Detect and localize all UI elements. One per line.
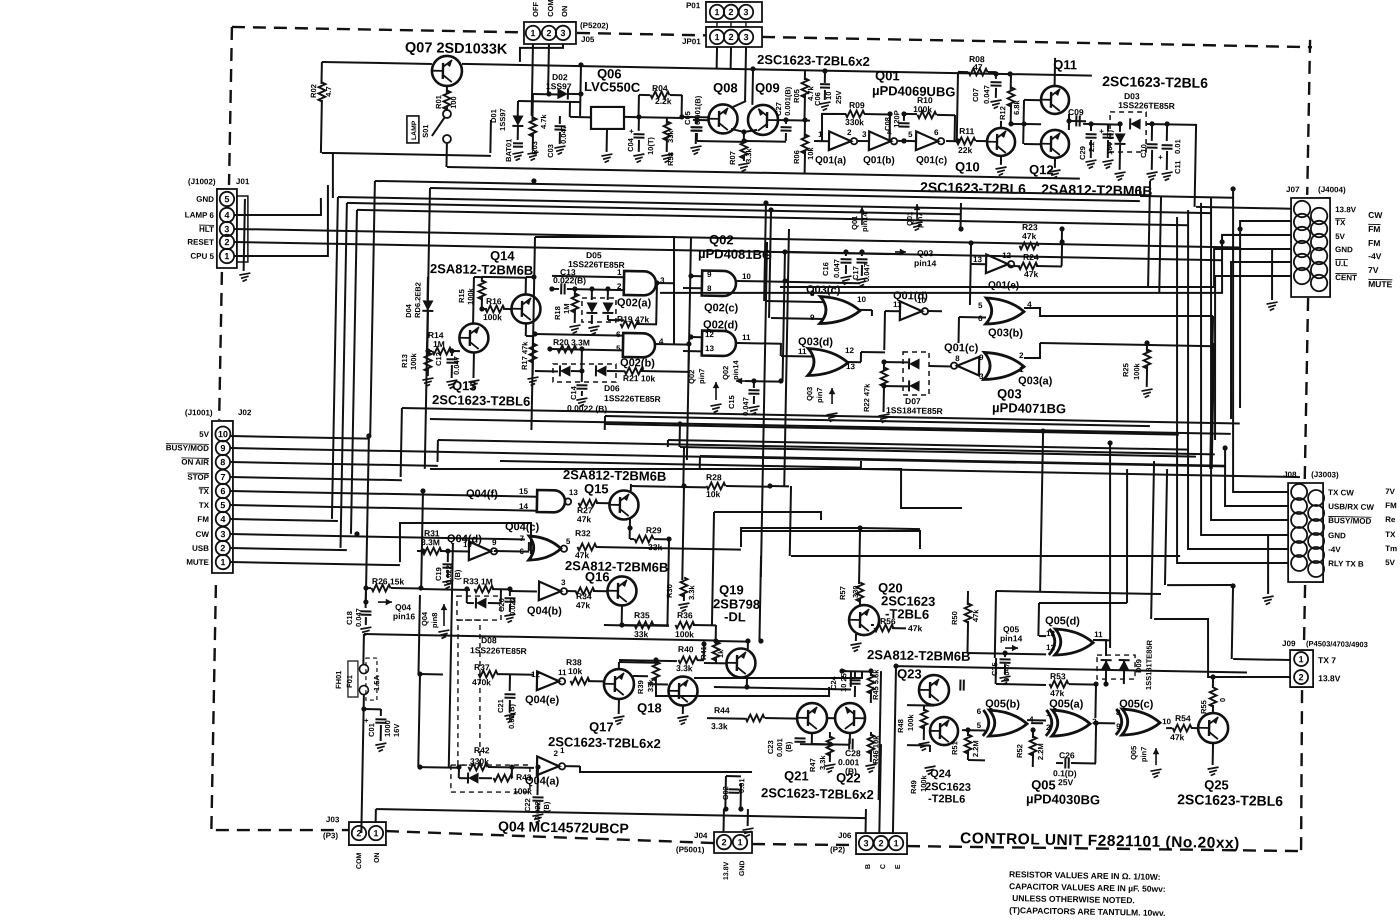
svg-text:C21: C21 bbox=[496, 699, 505, 713]
svg-text:COM: COM bbox=[546, 0, 555, 17]
svg-text:(P5001): (P5001) bbox=[676, 845, 705, 855]
svg-text:C04: C04 bbox=[626, 137, 635, 152]
inverter Q01(e) bbox=[986, 254, 1008, 273]
svg-text:Q05: Q05 bbox=[1129, 746, 1138, 760]
inverter Q04(d) bbox=[469, 541, 491, 560]
svg-text:1: 1 bbox=[1046, 709, 1051, 718]
svg-text:LAMP: LAMP bbox=[411, 120, 418, 140]
bus right verticals bbox=[1148, 181, 1150, 287]
svg-text:R51: R51 bbox=[950, 741, 959, 755]
svg-text:GND: GND bbox=[739, 860, 746, 876]
connector P01 bbox=[706, 1, 763, 23]
svg-text:R53: R53 bbox=[1050, 671, 1066, 681]
svg-text:-4V: -4V bbox=[1328, 545, 1341, 554]
resistor R33 bbox=[421, 588, 470, 591]
svg-text:16V: 16V bbox=[392, 724, 401, 738]
svg-text:6: 6 bbox=[978, 314, 983, 323]
resistor R11 22k bbox=[956, 137, 975, 144]
svg-text:0.022: 0.022 bbox=[508, 597, 517, 616]
svg-text:Q11: Q11 bbox=[1053, 57, 1077, 72]
svg-text:R07: R07 bbox=[728, 151, 737, 165]
svg-text:pin8: pin8 bbox=[430, 613, 439, 629]
svg-text:2SC1623-T2BL6x2: 2SC1623-T2BL6x2 bbox=[761, 785, 874, 802]
resistor R38 bbox=[570, 677, 589, 684]
svg-text:C25: C25 bbox=[990, 662, 999, 676]
diode box D05 bbox=[582, 297, 617, 322]
svg-text:Q04 MC14572UBCP: Q04 MC14572UBCP bbox=[498, 818, 629, 836]
svg-text:2SC1623-T2BL6x2: 2SC1623-T2BL6x2 bbox=[757, 52, 870, 69]
svg-text:100k: 100k bbox=[919, 774, 928, 792]
svg-text:11: 11 bbox=[1094, 630, 1103, 639]
gate Q02(d) bbox=[702, 331, 736, 357]
svg-text:Q08: Q08 bbox=[713, 80, 738, 95]
svg-text:33k: 33k bbox=[666, 129, 675, 143]
svg-text:R28: R28 bbox=[706, 472, 722, 482]
svg-text:C14: C14 bbox=[569, 385, 578, 400]
transistor Q12 bbox=[1041, 130, 1070, 159]
svg-text:R37: R37 bbox=[474, 662, 490, 672]
svg-text:C: C bbox=[880, 864, 887, 869]
resistor R58 bbox=[666, 117, 668, 124]
svg-text:C27: C27 bbox=[774, 102, 783, 116]
svg-text:1SS226TE85R: 1SS226TE85R bbox=[1118, 100, 1175, 111]
svg-text:47k: 47k bbox=[576, 600, 591, 610]
svg-text:C26: C26 bbox=[1059, 750, 1075, 760]
svg-text:33k: 33k bbox=[634, 629, 649, 639]
resistor R32 bbox=[577, 543, 596, 550]
svg-text:Q03(c): Q03(c) bbox=[806, 284, 841, 297]
svg-text:R49: R49 bbox=[909, 780, 918, 794]
inverter Q01(a) bbox=[829, 131, 851, 150]
svg-text:pin7: pin7 bbox=[697, 368, 706, 384]
svg-text:2: 2 bbox=[728, 32, 733, 42]
svg-text:4: 4 bbox=[224, 210, 229, 220]
connector J05 bbox=[524, 21, 577, 45]
transistor Q19 bbox=[726, 648, 756, 678]
svg-text:C22: C22 bbox=[523, 798, 532, 812]
svg-text:3: 3 bbox=[863, 838, 868, 848]
svg-text:(J4004): (J4004) bbox=[1318, 185, 1346, 195]
svg-text:2SA812-T2BM6B: 2SA812-T2BM6B bbox=[1041, 181, 1153, 199]
svg-text:U.L: U.L bbox=[1335, 259, 1348, 268]
resistor R01 bbox=[446, 86, 448, 93]
svg-text:2: 2 bbox=[721, 837, 726, 847]
capacitor C13 bbox=[552, 288, 559, 290]
svg-text:9: 9 bbox=[707, 270, 712, 279]
svg-text:(P5202): (P5202) bbox=[580, 21, 609, 31]
svg-text:8: 8 bbox=[955, 354, 960, 363]
svg-text:D08: D08 bbox=[481, 635, 497, 645]
capacitor C11 bbox=[1166, 124, 1168, 141]
svg-text:J08: J08 bbox=[1283, 470, 1297, 479]
bus horiz A bbox=[375, 181, 1150, 195]
resistor R06 bbox=[804, 120, 806, 138]
svg-text:S01: S01 bbox=[421, 124, 430, 138]
svg-text:0.047: 0.047 bbox=[741, 397, 750, 416]
svg-text:Q01(d): Q01(d) bbox=[893, 290, 928, 303]
svg-text:5: 5 bbox=[616, 344, 621, 353]
svg-text:0.047: 0.047 bbox=[1002, 663, 1011, 682]
svg-text:4: 4 bbox=[220, 514, 225, 524]
svg-text:Q04(b): Q04(b) bbox=[527, 605, 562, 618]
svg-text:R16: R16 bbox=[486, 296, 502, 306]
svg-text:100k: 100k bbox=[675, 629, 694, 639]
svg-text:15: 15 bbox=[519, 487, 529, 496]
svg-text:LAMP 6: LAMP 6 bbox=[185, 210, 215, 220]
diode R43 row bbox=[450, 764, 530, 794]
inverter Q01(c) bbox=[916, 131, 938, 150]
transistor Q17 bbox=[604, 669, 635, 700]
svg-text:2SC1623: 2SC1623 bbox=[925, 781, 971, 794]
svg-text:1: 1 bbox=[560, 746, 565, 755]
resistor R29 bbox=[630, 538, 634, 540]
diode box D09 bbox=[1097, 654, 1136, 679]
svg-text:Q17: Q17 bbox=[589, 719, 614, 734]
svg-text:6.8k: 6.8k bbox=[1012, 99, 1021, 115]
svg-text:(J1002): (J1002) bbox=[188, 177, 216, 187]
svg-text:FM: FM bbox=[1368, 224, 1380, 234]
svg-text:8: 8 bbox=[220, 457, 225, 467]
resistor R18 bbox=[574, 289, 576, 297]
svg-text:1SS226TE85R: 1SS226TE85R bbox=[470, 645, 527, 656]
svg-text:5: 5 bbox=[977, 721, 982, 730]
svg-text:10: 10 bbox=[1162, 717, 1172, 726]
svg-text:R36: R36 bbox=[677, 610, 693, 620]
transistor Q21 bbox=[797, 703, 828, 734]
svg-text:Q18: Q18 bbox=[637, 700, 662, 715]
svg-text:FM: FM bbox=[1368, 238, 1380, 248]
svg-text:2SA812-T2BM6B: 2SA812-T2BM6B bbox=[565, 558, 669, 575]
svg-text:(B): (B) bbox=[845, 766, 857, 776]
svg-text:5: 5 bbox=[908, 130, 913, 139]
capacitor C05b bbox=[693, 119, 709, 121]
svg-text:MUTE: MUTE bbox=[186, 558, 209, 567]
svg-text:µPD4081BG: µPD4081BG bbox=[698, 246, 772, 262]
svg-text:C09: C09 bbox=[1068, 107, 1084, 117]
svg-text:Q05(a): Q05(a) bbox=[1049, 698, 1084, 711]
svg-text:8: 8 bbox=[707, 284, 712, 293]
svg-text:(J3003): (J3003) bbox=[1311, 470, 1339, 480]
svg-text:7V: 7V bbox=[1368, 265, 1379, 275]
svg-text:C24: C24 bbox=[829, 675, 838, 690]
svg-text:3: 3 bbox=[862, 130, 867, 139]
svg-text:Q01(c): Q01(c) bbox=[944, 342, 979, 355]
svg-text:FM: FM bbox=[1385, 501, 1397, 510]
svg-text:R21 10k: R21 10k bbox=[623, 373, 656, 384]
svg-text:R44: R44 bbox=[714, 705, 730, 715]
svg-text:C07: C07 bbox=[971, 88, 980, 102]
svg-text:3: 3 bbox=[743, 32, 748, 42]
svg-text:0.01: 0.01 bbox=[737, 778, 746, 793]
svg-text:9: 9 bbox=[810, 313, 815, 322]
LAMP box bbox=[406, 116, 419, 143]
svg-text:0.047: 0.047 bbox=[354, 608, 363, 627]
svg-text:25V: 25V bbox=[1058, 777, 1074, 787]
ground J07 bbox=[1271, 249, 1291, 301]
capacitor C22 bbox=[536, 767, 539, 795]
svg-text:2: 2 bbox=[546, 28, 551, 38]
svg-text:5V: 5V bbox=[199, 430, 210, 439]
resistor R36 bbox=[675, 621, 694, 628]
svg-text:47k: 47k bbox=[1022, 231, 1037, 241]
resistor R56 bbox=[871, 624, 874, 626]
svg-text:C01: C01 bbox=[367, 723, 376, 737]
svg-text:ON AIR: ON AIR bbox=[181, 458, 209, 468]
svg-text:J05: J05 bbox=[581, 35, 595, 44]
bus segs bbox=[429, 460, 962, 509]
gate Q05(a) bbox=[1052, 710, 1090, 737]
svg-text:R05: R05 bbox=[792, 89, 801, 103]
svg-text:BUSY/MOD: BUSY/MOD bbox=[166, 443, 209, 453]
svg-text:3.3k: 3.3k bbox=[818, 755, 827, 771]
diode box D08 tall bbox=[455, 620, 482, 766]
svg-text:1SS181TE85R: 1SS181TE85R bbox=[1144, 639, 1154, 690]
svg-text:HLT: HLT bbox=[199, 225, 214, 234]
svg-text:Q12: Q12 bbox=[1029, 162, 1054, 177]
svg-text:100k: 100k bbox=[913, 104, 932, 114]
wire Q18 collector bbox=[694, 668, 862, 681]
svg-text:C15: C15 bbox=[727, 395, 736, 409]
arrow Q04 pin16 bbox=[378, 601, 392, 604]
svg-text:pin14: pin14 bbox=[731, 359, 740, 380]
svg-text:C19: C19 bbox=[434, 567, 443, 581]
wire q03a out bbox=[1040, 343, 1214, 346]
svg-text:R50: R50 bbox=[950, 611, 959, 625]
svg-text:14: 14 bbox=[519, 502, 529, 511]
svg-text:USB/RX CW: USB/RX CW bbox=[1328, 502, 1374, 512]
border frame bbox=[232, 27, 524, 32]
svg-text:1: 1 bbox=[1299, 654, 1304, 664]
svg-text:R13: R13 bbox=[400, 354, 409, 368]
svg-text:TX: TX bbox=[1335, 218, 1346, 227]
svg-text:C16: C16 bbox=[821, 262, 830, 276]
capacitor C10 bbox=[1151, 124, 1153, 141]
resistor R42 bbox=[420, 766, 459, 769]
svg-text:Q01: Q01 bbox=[875, 68, 900, 83]
svg-text:0.01: 0.01 bbox=[1173, 139, 1182, 154]
svg-text:R18: R18 bbox=[553, 306, 562, 320]
svg-text:µPD4030BG: µPD4030BG bbox=[1026, 791, 1100, 807]
svg-text:GND: GND bbox=[1328, 531, 1346, 540]
svg-text:6: 6 bbox=[220, 486, 225, 496]
svg-text:3.3k: 3.3k bbox=[687, 584, 696, 600]
svg-text:CW: CW bbox=[1368, 210, 1383, 220]
svg-text:Q16: Q16 bbox=[585, 569, 610, 584]
svg-text:R03: R03 bbox=[530, 141, 539, 155]
svg-text:Q03: Q03 bbox=[917, 248, 934, 258]
svg-text:2SA812-T2BM6B: 2SA812-T2BM6B bbox=[563, 467, 667, 484]
svg-text:(P2): (P2) bbox=[830, 845, 846, 854]
svg-text:GND: GND bbox=[1335, 245, 1353, 254]
wires J06 up bbox=[865, 809, 867, 833]
svg-text:Q09: Q09 bbox=[755, 80, 780, 95]
svg-text:BUSY/MOD: BUSY/MOD bbox=[1328, 516, 1371, 526]
capacitor C17 bbox=[861, 252, 863, 256]
svg-text:Q19: Q19 bbox=[719, 582, 744, 597]
svg-text:47k: 47k bbox=[908, 623, 923, 633]
svg-text:12: 12 bbox=[1046, 643, 1056, 652]
svg-text:10: 10 bbox=[742, 272, 752, 281]
wire J03 to right bbox=[376, 809, 866, 818]
svg-text:ON: ON bbox=[560, 6, 569, 17]
bus center bbox=[605, 416, 1150, 426]
svg-text:25V: 25V bbox=[834, 90, 843, 104]
capacitor C07 bbox=[995, 72, 997, 79]
svg-text:C08: C08 bbox=[883, 117, 892, 131]
arrows Q01 pins bbox=[861, 207, 864, 225]
gate Q03(b) wires from inv bbox=[927, 310, 942, 312]
gate Q05(b) bbox=[989, 710, 1027, 737]
svg-text:R12: R12 bbox=[998, 106, 1007, 120]
wires Q01 chain bbox=[814, 140, 829, 142]
svg-text:R26 15k: R26 15k bbox=[372, 576, 405, 587]
svg-text:LVC550C: LVC550C bbox=[584, 79, 641, 95]
gate Q03(d) bbox=[808, 348, 848, 376]
svg-text:8: 8 bbox=[1116, 708, 1121, 717]
svg-text:2: 2 bbox=[1019, 351, 1024, 360]
svg-text:ON: ON bbox=[374, 852, 381, 863]
svg-text:Q01(a): Q01(a) bbox=[815, 155, 846, 167]
capacitor C05 bbox=[695, 117, 697, 124]
resistor R13 bbox=[427, 351, 429, 356]
transistor Q15 bbox=[609, 490, 639, 520]
svg-text:JP01: JP01 bbox=[682, 37, 701, 46]
svg-text:7V: 7V bbox=[1385, 487, 1396, 496]
resistor R08 47 bbox=[958, 71, 968, 73]
svg-text:(P3): (P3) bbox=[323, 831, 339, 840]
svg-text:(B): (B) bbox=[542, 801, 551, 812]
svg-text:0.022: 0.022 bbox=[533, 801, 542, 820]
inverter Q01(d) bbox=[900, 301, 922, 320]
svg-text:R54: R54 bbox=[1175, 713, 1191, 723]
svg-text:1M: 1M bbox=[562, 303, 571, 314]
svg-text:C11: C11 bbox=[1173, 160, 1182, 174]
resistor R26 bbox=[366, 587, 371, 589]
wire to J07 bbox=[1195, 124, 1197, 207]
svg-text:J07: J07 bbox=[1286, 185, 1300, 194]
wires J09 bbox=[1233, 659, 1290, 660]
svg-text:13.8V: 13.8V bbox=[1335, 205, 1357, 214]
svg-text:0.001: 0.001 bbox=[775, 738, 784, 757]
transistor Q10 bbox=[987, 128, 1016, 157]
svg-text:Re: Re bbox=[1385, 515, 1396, 524]
svg-text:Q02(c): Q02(c) bbox=[704, 302, 739, 315]
resistor R21 bbox=[624, 367, 643, 374]
gate Q02(a) bbox=[624, 271, 656, 296]
svg-text:TX: TX bbox=[199, 501, 210, 510]
svg-text:R32: R32 bbox=[575, 528, 591, 538]
svg-text:12: 12 bbox=[705, 330, 715, 339]
resistor R27 bbox=[578, 499, 597, 506]
svg-text:1SS226TE85R: 1SS226TE85R bbox=[604, 393, 661, 404]
svg-text:F01: F01 bbox=[345, 675, 354, 688]
svg-text:CPU 5: CPU 5 bbox=[190, 252, 214, 261]
resistor R34 bbox=[575, 587, 594, 594]
bus mid horiz bbox=[402, 408, 1240, 424]
svg-text:Q21: Q21 bbox=[784, 768, 809, 783]
capacitor C20 bbox=[509, 589, 511, 596]
svg-text:Q01: Q01 bbox=[850, 216, 859, 230]
svg-text:3: 3 bbox=[220, 529, 225, 539]
svg-text:22k: 22k bbox=[958, 145, 973, 155]
gate Q02(b) bbox=[623, 333, 655, 358]
svg-text:TX 7: TX 7 bbox=[1318, 655, 1336, 665]
svg-text:2: 2 bbox=[878, 838, 883, 848]
svg-text:(P4503/4703/4903: (P4503/4703/4903 bbox=[1306, 639, 1368, 649]
inverter Q04(b) bbox=[539, 581, 561, 600]
svg-text:J09: J09 bbox=[1282, 639, 1296, 648]
svg-text:+: + bbox=[629, 127, 634, 136]
svg-text:µPD4071BG: µPD4071BG bbox=[992, 400, 1066, 416]
resistor R03 bbox=[531, 94, 533, 120]
svg-text:Q03: Q03 bbox=[805, 387, 814, 401]
svg-text:2: 2 bbox=[847, 128, 852, 137]
svg-text:0.0022 (B): 0.0022 (B) bbox=[567, 403, 608, 414]
capacitor C01 bbox=[361, 706, 366, 711]
svg-text:3.3k: 3.3k bbox=[744, 147, 753, 163]
svg-text:10k: 10k bbox=[706, 489, 721, 499]
svg-text:2: 2 bbox=[356, 828, 361, 838]
svg-text:pin7: pin7 bbox=[915, 212, 924, 228]
svg-text:CW: CW bbox=[196, 530, 210, 539]
resistor R37 bbox=[420, 673, 443, 675]
svg-text:1SS184TE85R: 1SS184TE85R bbox=[886, 405, 943, 416]
bus to J07 upper bbox=[1237, 220, 1291, 409]
wires Q24 bbox=[907, 744, 930, 746]
svg-text:(B): (B) bbox=[784, 741, 793, 752]
svg-text:Q01: Q01 bbox=[905, 212, 914, 226]
svg-text:47k: 47k bbox=[971, 609, 980, 623]
switch S01 bbox=[443, 110, 451, 118]
svg-text:Q02(d): Q02(d) bbox=[703, 319, 738, 332]
svg-text:R58: R58 bbox=[666, 152, 675, 166]
svg-text:R20 3.3M: R20 3.3M bbox=[553, 337, 590, 348]
svg-text:5: 5 bbox=[978, 301, 983, 310]
svg-text:Q14: Q14 bbox=[490, 248, 516, 263]
svg-text:3: 3 bbox=[224, 224, 229, 234]
svg-text:MUTE: MUTE bbox=[1368, 279, 1393, 289]
svg-text:FH01: FH01 bbox=[334, 671, 343, 690]
svg-text:2: 2 bbox=[220, 543, 225, 553]
svg-text:0.047: 0.047 bbox=[559, 125, 568, 144]
svg-text:(J1001): (J1001) bbox=[185, 408, 213, 418]
svg-text:Q01(b): Q01(b) bbox=[863, 155, 895, 167]
svg-text:C29: C29 bbox=[1078, 146, 1087, 160]
fuse rail 13.8V bbox=[364, 634, 716, 641]
inverter Q01(b) bbox=[869, 131, 891, 150]
wires Q02b bbox=[535, 334, 623, 336]
resistor R05 bbox=[804, 71, 806, 80]
svg-text:9: 9 bbox=[492, 538, 497, 547]
svg-text:R30: R30 bbox=[665, 584, 674, 598]
svg-text:2.2M: 2.2M bbox=[1036, 743, 1045, 760]
bus J02 wires bbox=[231, 436, 369, 439]
transistor Q22 bbox=[835, 703, 866, 734]
svg-text:1: 1 bbox=[530, 28, 535, 38]
ground J01 bbox=[244, 199, 245, 271]
svg-text:P01: P01 bbox=[686, 1, 701, 10]
svg-text:C12: C12 bbox=[434, 352, 443, 366]
svg-text:J03: J03 bbox=[326, 815, 340, 824]
svg-text:STOP: STOP bbox=[187, 473, 209, 482]
svg-text:2SC1623-T2BL6: 2SC1623-T2BL6 bbox=[1177, 791, 1283, 809]
svg-text:4.7: 4.7 bbox=[324, 86, 333, 97]
wire J05 bbox=[532, 44, 533, 116]
resistor R25 bbox=[1144, 340, 1149, 345]
resistor R53 bbox=[996, 683, 1046, 686]
svg-text:CENT: CENT bbox=[1335, 273, 1357, 282]
svg-text:Q04(e): Q04(e) bbox=[525, 694, 560, 707]
